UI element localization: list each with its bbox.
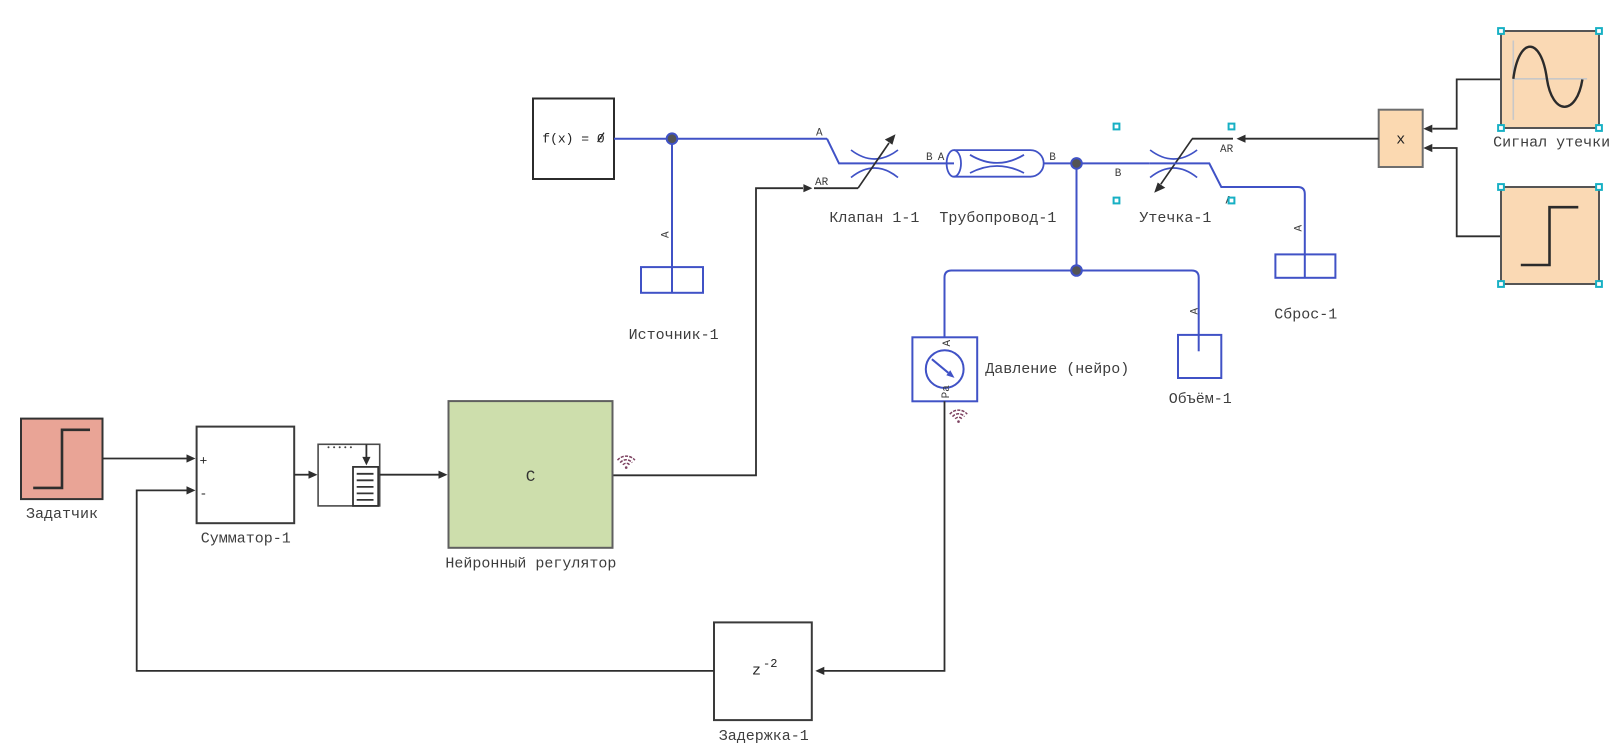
svg-text:Задержка-1: Задержка-1	[719, 728, 809, 745]
block Задатчик step source	[21, 419, 103, 500]
svg-text:Клапан 1-1: Клапан 1-1	[829, 210, 919, 227]
svg-text:Pa: Pa	[941, 385, 953, 399]
block U1 f(x)=0 source	[533, 99, 614, 180]
selection handle Утечка top-left	[1114, 124, 1120, 130]
svg-text:f(x) = 0: f(x) = 0	[542, 132, 604, 147]
svg-text:Сумматор-1: Сумматор-1	[201, 530, 291, 547]
selection handle Утечка top-right	[1229, 124, 1235, 130]
valve Утечка-1 control arrow (pointing down-left)	[1154, 139, 1192, 193]
selection handle sine bottom-right	[1596, 125, 1602, 131]
svg-text:-: -	[200, 487, 208, 502]
block step source (unnamed)	[1501, 187, 1599, 284]
svg-text:AR: AR	[1220, 144, 1234, 156]
svg-text:-2: -2	[763, 657, 777, 671]
block Нейронный регулятор	[449, 401, 613, 548]
block Сброс-1	[1275, 254, 1335, 277]
svg-text:z: z	[752, 663, 761, 680]
wire AR control into Клапан (black, from neural controller)	[613, 184, 858, 475]
svg-text:Утечка-1: Утечка-1	[1139, 210, 1211, 227]
selection handle step top-right	[1596, 184, 1602, 190]
block Задержка-1	[714, 622, 812, 720]
svg-text:A: A	[938, 152, 945, 164]
block file-writer (запись в файл)	[318, 444, 380, 506]
svg-text:A: A	[1190, 308, 1202, 315]
valve Клапан 1-1 arcs	[851, 150, 898, 178]
wire J3 right to Объём-1	[1077, 271, 1199, 352]
node junction J3	[1071, 265, 1082, 276]
node junction J1	[667, 133, 678, 144]
svg-text:A: A	[816, 128, 823, 140]
svg-text:B: B	[926, 152, 933, 164]
valve Клапан 1-1 control arrow	[858, 134, 896, 188]
block Сумматор-1	[197, 427, 295, 524]
block Объём-1	[1178, 335, 1221, 378]
wire Давление output down to Задержка (black)	[815, 401, 944, 675]
wire junction J2 down to junction J3	[1076, 163, 1078, 270]
svg-text:+: +	[200, 454, 208, 469]
wire multiplier output to Утечка AR (black)	[1192, 135, 1379, 143]
wire J3 left to Давление gauge	[945, 271, 1077, 338]
svg-text:Источник-1: Источник-1	[629, 327, 719, 344]
block Сигнал утечки (sine source)	[1501, 31, 1599, 128]
selection handle step top-left	[1498, 184, 1504, 190]
selection handle sine top-right	[1596, 28, 1602, 34]
wire step source to multiplier input 2	[1423, 144, 1501, 236]
svg-text:Сброс-1: Сброс-1	[1274, 307, 1337, 324]
svg-text:Объём-1: Объём-1	[1169, 391, 1232, 408]
selection handle step bottom-right	[1596, 281, 1602, 287]
svg-text:Трубопровод-1: Трубопровод-1	[939, 210, 1056, 227]
wire file-writer to neural controller	[380, 471, 448, 479]
svg-text:AR: AR	[815, 177, 829, 189]
svg-text:B: B	[1115, 168, 1122, 180]
selection handle sine bottom-left	[1498, 125, 1504, 131]
selection handle Утечка bottom-left	[1114, 198, 1120, 204]
wifi icon (Давление)	[950, 410, 967, 419]
node junction J2	[1071, 158, 1082, 169]
wire junction J1 down to Источник-1	[671, 139, 673, 293]
svg-text:x: x	[1396, 132, 1405, 149]
svg-text:A: A	[1294, 225, 1306, 232]
block Источник-1	[641, 267, 703, 293]
selection handle step bottom-left	[1498, 281, 1504, 287]
wire Задержка output feedback to Сумматор minus	[137, 486, 714, 671]
valve Утечка-1 arcs	[1150, 150, 1197, 178]
wire Задатчик to Сумматор plus	[103, 454, 196, 462]
selection handle Утечка bottom-right	[1229, 198, 1235, 204]
svg-text:Задатчик: Задатчик	[26, 506, 98, 523]
wire pipe B to Утечка (blue)	[1044, 162, 1150, 164]
svg-text:A: A	[942, 340, 954, 347]
svg-text:B: B	[1049, 152, 1056, 164]
svg-text:C: C	[526, 468, 536, 486]
wire Утечка B-A through valve and to Сброс-1 (blue)	[1149, 163, 1305, 277]
wire sine source to multiplier input 1	[1423, 79, 1501, 132]
block multiplier x	[1379, 110, 1423, 167]
svg-text:Нейронный регулятор: Нейронный регулятор	[445, 556, 616, 573]
wire f(x)=0 output to valve A (blue)	[614, 139, 954, 164]
svg-text:Сигнал утечки: Сигнал утечки	[1493, 135, 1610, 152]
wire Сумматор output to file-writer block	[294, 471, 317, 479]
pipe Трубопровод-1	[947, 150, 1044, 177]
svg-text:A: A	[661, 231, 673, 238]
block Давление (нейро) gauge	[912, 337, 977, 401]
wifi icon (Нейронный регулятор)	[618, 456, 635, 465]
selection handle sine top-left	[1498, 28, 1504, 34]
svg-text:Давление (нейро): Давление (нейро)	[985, 361, 1129, 378]
